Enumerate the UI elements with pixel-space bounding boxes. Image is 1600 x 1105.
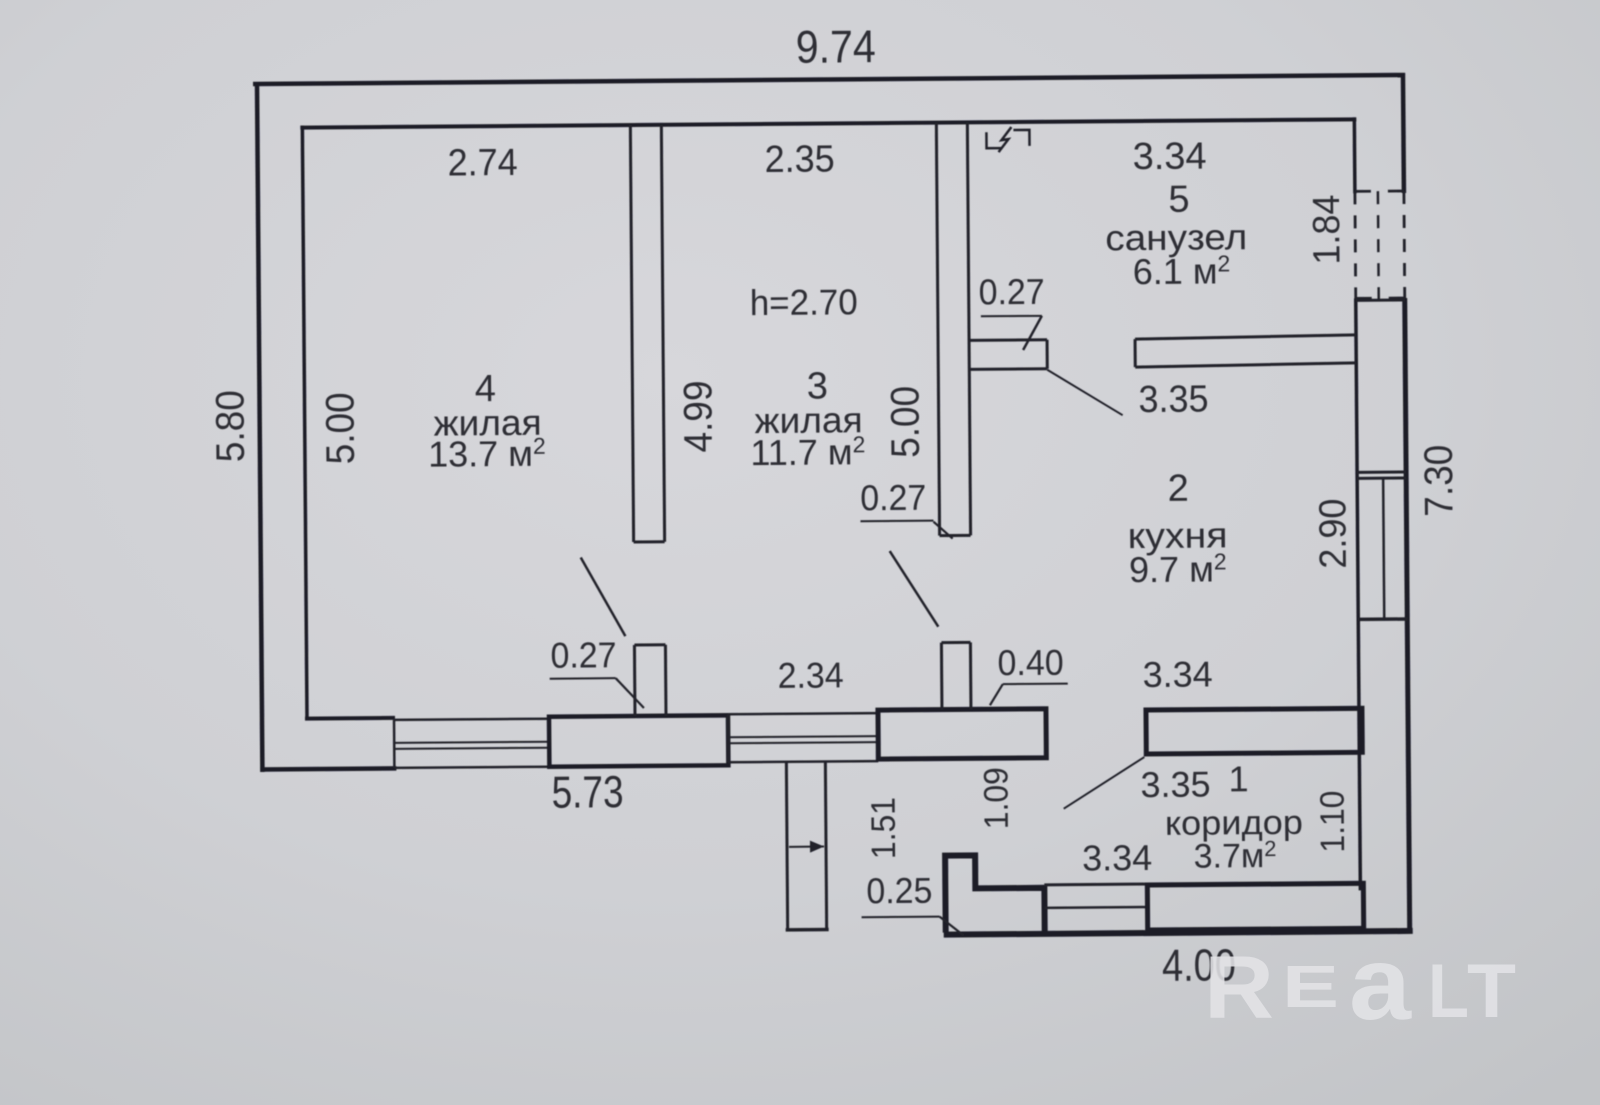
svg-text:2.34: 2.34: [778, 654, 844, 696]
svg-text:0.25: 0.25: [866, 870, 932, 912]
svg-text:9.7 м2: 9.7 м2: [1129, 548, 1227, 590]
door D1 leaf rooms 4-3: [581, 557, 626, 636]
svg-text:5: 5: [1168, 179, 1189, 221]
svg-text:3.7м2: 3.7м2: [1194, 836, 1277, 876]
svg-text:h=2.70: h=2.70: [750, 281, 858, 323]
svg-text:R: R: [1204, 937, 1274, 1037]
wall porch outline: [945, 855, 1045, 933]
svg-text:2.74: 2.74: [447, 142, 517, 185]
wall exterior right upper: [1401, 73, 1406, 193]
wall annex bottom outer: [944, 931, 1413, 935]
wall pillar room 3 - kitchen: [940, 643, 944, 710]
wall interior face bottom-left: [305, 716, 395, 721]
svg-text:13.7 м2: 13.7 м2: [428, 433, 546, 475]
svg-text:4.99: 4.99: [676, 380, 721, 452]
leader dim 3.35 corridor: [1063, 757, 1144, 809]
dim 0.27 leader bathroom door: [981, 315, 1042, 317]
svg-text:3.34: 3.34: [1082, 837, 1152, 879]
window W2: [728, 713, 878, 714]
wall exterior bottom-left: [260, 768, 396, 769]
dim 0.27 leader room 3: [860, 520, 933, 523]
wall exterior top: [253, 75, 1405, 84]
svg-text:5.00: 5.00: [883, 386, 928, 458]
wall corridor top: [1146, 708, 1362, 754]
watermark Realt logo: [1204, 926, 1516, 1042]
svg-text:0.40: 0.40: [997, 642, 1063, 684]
door threshold entrance: [1044, 883, 1147, 887]
wall exterior right lower: [1405, 298, 1410, 933]
svg-text:3.34: 3.34: [1143, 653, 1213, 695]
svg-text:0.27: 0.27: [550, 634, 616, 676]
svg-text:11.7 м2: 11.7 м2: [750, 431, 865, 473]
svg-text:1.09: 1.09: [977, 767, 1015, 829]
svg-text:2.90: 2.90: [1312, 498, 1355, 568]
svg-text:a: a: [1349, 926, 1412, 1042]
svg-text:9.74: 9.74: [796, 20, 876, 73]
window W3 dashed opening 1.84: [1353, 191, 1357, 300]
window W1: [394, 719, 549, 720]
svg-text:1.51: 1.51: [865, 797, 903, 859]
svg-text:2.35: 2.35: [764, 138, 834, 181]
wall entry porch left: [786, 762, 787, 930]
wall stub bathroom door jamb: [968, 338, 1047, 342]
wall bathroom - kitchen: [1135, 335, 1356, 339]
wall pier bottom 2 (0.40): [878, 709, 1046, 759]
svg-text:1.84: 1.84: [1306, 194, 1349, 264]
svg-text:1: 1: [1228, 758, 1248, 799]
leader dim 3.35 kitchen: [1047, 369, 1122, 416]
svg-text:7.30: 7.30: [1417, 445, 1462, 517]
svg-text:0.27: 0.27: [979, 271, 1045, 313]
dim 0.27 leader door D1: [550, 677, 616, 680]
svg-text:3.35: 3.35: [1138, 379, 1208, 422]
wall right pier caps: [1356, 298, 1405, 301]
wall interior face top: [300, 119, 1356, 127]
dim 0.40 leader: [1003, 683, 1068, 686]
wall corridor bottom: [1147, 883, 1363, 930]
wall partition rooms 4-3 lower stub: [633, 645, 637, 716]
svg-text:2: 2: [1167, 468, 1188, 510]
wall interior face right upper: [1353, 117, 1357, 193]
wall interior face left: [302, 126, 307, 720]
wall room 3 - kitchen: [936, 123, 939, 536]
window W4 kitchen: [1357, 476, 1406, 479]
svg-text:0.27: 0.27: [860, 477, 926, 519]
svg-text:T: T: [1467, 949, 1516, 1034]
wall exterior left: [257, 82, 262, 772]
svg-text:3.34: 3.34: [1132, 136, 1206, 179]
dim 0.25 leader: [862, 916, 940, 919]
door D2 leaf room 3 - kitchen: [890, 551, 939, 627]
electric meter symbol: [986, 132, 1001, 148]
svg-text:L: L: [1428, 949, 1469, 1034]
wall partition rooms 4-3 upper: [630, 125, 633, 542]
svg-text:5.80: 5.80: [208, 390, 253, 462]
wall pier bottom 1: [549, 715, 728, 766]
svg-text:E: E: [1282, 954, 1339, 1020]
svg-text:6.1 м2: 6.1 м2: [1133, 250, 1231, 292]
svg-text:3.35: 3.35: [1140, 764, 1210, 806]
svg-text:5.73: 5.73: [551, 766, 623, 818]
svg-text:1.10: 1.10: [1314, 790, 1352, 852]
wall interior face right lower: [1356, 298, 1361, 890]
svg-text:5.00: 5.00: [318, 392, 363, 464]
dim arrow entry: [789, 846, 824, 848]
